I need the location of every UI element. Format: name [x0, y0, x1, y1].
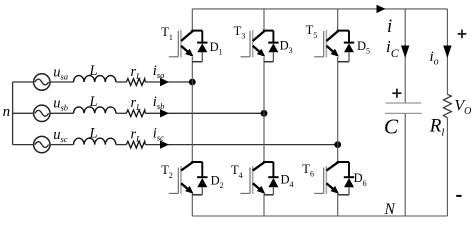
wire phase sb from n to source	[13, 112, 34, 114]
diode D5	[337, 31, 355, 62]
wire leg b lower	[263, 194, 265, 217]
wire leg c lower	[337, 194, 339, 217]
junction node phase sb	[261, 110, 268, 117]
transistor T6	[314, 162, 339, 194]
current arrow i_sa	[160, 78, 169, 86]
wire load branch lower	[446, 118, 448, 216]
svg-text:iC: iC	[386, 37, 400, 60]
resistor r_L phase sb	[126, 110, 145, 117]
wire load branch upper	[446, 9, 448, 94]
svg-text:C: C	[384, 115, 399, 139]
wire inductor to resistor	[116, 81, 126, 83]
ac source u_sc	[34, 136, 50, 152]
wire phase sa from n to source	[13, 81, 34, 83]
svg-text:T3: T3	[234, 24, 246, 41]
wire leg c middle	[337, 57, 339, 162]
svg-text:usc: usc	[53, 127, 68, 144]
junction node phase sc	[334, 141, 341, 148]
svg-text:T5: T5	[306, 23, 318, 40]
resistor R_L load	[443, 94, 451, 118]
svg-text:T6: T6	[302, 162, 314, 179]
svg-text:i: i	[387, 17, 392, 37]
svg-text:isc: isc	[153, 125, 164, 142]
transistor T5	[314, 30, 339, 58]
capacitor C	[385, 103, 422, 113]
inductor L phase sa	[73, 76, 115, 82]
wire capacitor branch upper	[404, 9, 406, 103]
wire phase sc from n to source	[13, 144, 34, 146]
svg-text:n: n	[3, 104, 11, 120]
svg-text:rL: rL	[131, 64, 142, 81]
svg-text:rL: rL	[131, 126, 142, 143]
wire leg a middle	[191, 57, 193, 162]
ac source u_sb	[34, 105, 50, 121]
label plus output	[458, 30, 467, 39]
wire leg a lower	[191, 194, 193, 217]
current arrow i_sb	[160, 109, 169, 117]
transistor T1	[169, 30, 194, 58]
svg-text:isb: isb	[153, 94, 165, 111]
svg-text:isa: isa	[153, 63, 165, 80]
svg-text:D2: D2	[211, 173, 224, 190]
wire inductor to resistor	[116, 144, 126, 146]
inductor L phase sc	[73, 138, 115, 144]
wire capacitor branch lower	[404, 113, 406, 216]
wire resistor to bridge leg	[145, 81, 192, 83]
svg-text:usb: usb	[53, 96, 68, 113]
svg-text:D4: D4	[281, 172, 294, 189]
resistor r_L phase sa	[126, 79, 145, 86]
current arrow i_o	[443, 46, 451, 59]
label plus capacitor	[392, 89, 401, 98]
wire leg c upper	[337, 9, 339, 31]
wire negative dc bus	[192, 215, 447, 217]
wire resistor to bridge leg	[145, 144, 338, 146]
diode D4	[263, 162, 279, 195]
svg-text:D1: D1	[210, 40, 223, 57]
svg-text:Rl: Rl	[429, 115, 445, 138]
current arrow i_sc	[160, 140, 169, 148]
current arrow i on dc bus	[377, 5, 386, 13]
transistor T2	[169, 162, 194, 194]
wire inductor to resistor	[116, 112, 126, 114]
diode D2	[191, 162, 207, 195]
diode D1	[191, 31, 207, 62]
wire positive dc bus	[192, 8, 447, 10]
svg-text:L: L	[89, 125, 98, 141]
inductor L phase sb	[73, 107, 115, 113]
wire leg b middle	[263, 57, 265, 162]
svg-text:L: L	[89, 94, 98, 110]
wire neutral rail	[12, 82, 14, 145]
wire resistor to bridge leg	[145, 112, 264, 114]
transistor T4	[241, 162, 266, 194]
junction node phase sa	[189, 79, 196, 86]
current arrow i_C	[401, 46, 409, 59]
resistor r_L phase sc	[126, 141, 145, 148]
svg-text:T1: T1	[161, 25, 173, 42]
svg-text:usa: usa	[53, 64, 68, 81]
svg-text:VO: VO	[454, 97, 471, 117]
wire leg a upper	[191, 9, 193, 31]
svg-text:T2: T2	[161, 163, 173, 180]
wire source to inductor	[50, 81, 74, 83]
svg-text:T4: T4	[231, 163, 243, 180]
svg-text:N: N	[384, 201, 397, 218]
svg-text:D3: D3	[280, 38, 293, 55]
ac source u_sa	[34, 74, 50, 90]
svg-text:D5: D5	[357, 39, 370, 56]
label minus output	[456, 195, 461, 197]
diode D6	[337, 162, 355, 195]
diode D3	[263, 31, 279, 62]
transistor T3	[241, 30, 266, 58]
svg-text:io: io	[430, 49, 439, 67]
svg-text:D6: D6	[354, 171, 367, 188]
wire source to inductor	[50, 144, 74, 146]
svg-text:L: L	[89, 63, 98, 79]
wire leg b upper	[263, 9, 265, 31]
svg-text:rL: rL	[131, 95, 142, 112]
wire source to inductor	[50, 112, 74, 114]
